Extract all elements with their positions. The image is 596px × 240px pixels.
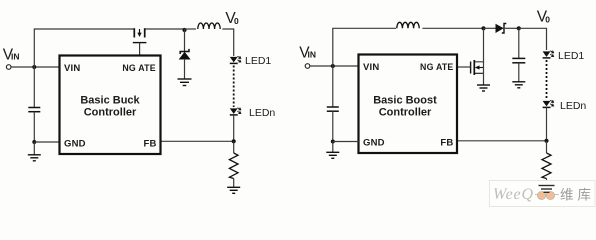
svg-text:GND: GND — [363, 138, 385, 149]
junction V0 node (boost) — [517, 26, 521, 30]
inductor L1 (buck) — [185, 23, 221, 29]
wire L1 to V0 node then down to LED string — [222, 29, 233, 56]
svg-text:Basic Buck: Basic Buck — [80, 95, 140, 107]
transistor Q1 PMOS switch (buck) — [133, 28, 147, 55]
svg-text:维库: 维库 — [560, 188, 595, 203]
svg-text:0: 0 — [234, 16, 239, 26]
transistor Q2 NMOS switch (boost) — [471, 60, 484, 85]
inductor L2 (boost) — [397, 22, 419, 28]
capacitor C3 output (boost) — [512, 28, 525, 81]
input terminal VIN (boost) — [305, 64, 310, 69]
wire FB pin to FB node — [161, 140, 234, 142]
junction VIN / C1 — [32, 65, 36, 69]
svg-text:Controller: Controller — [84, 107, 137, 119]
capacitor C1 input (buck) — [28, 67, 40, 142]
svg-text:LED1: LED1 — [245, 55, 271, 67]
junction VIN / C2 — [331, 64, 335, 68]
wire L2 to switch node — [422, 27, 483, 29]
resistor R2 current sense (boost) — [542, 141, 551, 185]
wire GND pin (boost) — [333, 141, 359, 143]
ground (Q2 source) — [477, 85, 490, 91]
svg-text:NG ATE: NG ATE — [420, 62, 453, 72]
watermark box — [490, 181, 596, 207]
node V0 label (buck) — [225, 10, 239, 27]
svg-text:GND: GND — [64, 139, 86, 150]
ground (D1) — [178, 79, 192, 86]
wire C1 junction to ground — [33, 142, 35, 155]
IC U1 Basic Buck Controller — [60, 56, 161, 155]
LED LED1 (buck) — [230, 56, 241, 63]
junction C2 / GND pin — [331, 140, 335, 144]
wire VIN rail up and across to Q1 source — [34, 29, 133, 67]
ground (R2) — [539, 186, 555, 193]
svg-text:VIN: VIN — [363, 62, 379, 73]
wire D1 anode to ground — [184, 59, 186, 79]
wire SW node down to D1 cathode — [184, 30, 186, 52]
wire VIN terminal to controller VIN pin (boost) — [310, 65, 359, 67]
svg-text:Controller: Controller — [379, 107, 432, 119]
resistor R1 current sense (buck) — [229, 141, 238, 187]
capacitor C2 input (boost) — [327, 66, 339, 142]
svg-text:NG ATE: NG ATE — [122, 63, 155, 73]
node VIN label (buck) — [3, 47, 20, 64]
wire VIN rail up and across to L2 — [333, 28, 396, 66]
node VIN label (boost) — [299, 45, 316, 62]
svg-text:IN: IN — [308, 50, 317, 60]
wire VIN terminal to controller VIN pin — [11, 66, 60, 68]
wire Q1 drain to SW node — [146, 28, 185, 30]
ground (C3) — [512, 82, 525, 88]
diode D2 schottky rectifier (boost) — [484, 24, 519, 34]
ground (R1) — [227, 187, 240, 193]
svg-text:VIN: VIN — [64, 63, 80, 74]
wire V0 node right and down to LED string — [519, 28, 547, 50]
wire LEDn to FB node — [233, 115, 235, 141]
svg-text:LEDn: LEDn — [249, 107, 275, 119]
wire SW node down to Q2 drain — [475, 28, 484, 62]
LED LED1 (boost) — [543, 51, 554, 58]
wire FB pin to FB node (boost) — [457, 140, 547, 142]
wire dotted LED string (buck) — [233, 66, 235, 108]
wire LEDn to FB node (boost) — [546, 107, 548, 140]
svg-text:FB: FB — [144, 138, 157, 149]
LED LEDn (boost) — [543, 100, 554, 107]
ground (C2) — [326, 152, 339, 158]
junction FB node (boost) — [544, 139, 548, 143]
diode D1 schottky freewheeling (buck) — [179, 49, 190, 59]
svg-text:0: 0 — [545, 15, 550, 25]
LED LEDn (buck) — [230, 108, 241, 115]
ground (C1) — [28, 155, 41, 161]
svg-text:LED1: LED1 — [558, 50, 584, 62]
junction C1 / GND pin — [32, 140, 36, 144]
wire NGATE pin to Q2 gate — [457, 66, 471, 68]
node V0 label (boost) — [537, 9, 550, 26]
svg-text:FB: FB — [440, 137, 453, 148]
junction FB node (buck) — [232, 139, 236, 143]
wire GND pin (buck) — [34, 141, 59, 143]
input terminal VIN (buck) — [6, 65, 11, 70]
svg-text:IN: IN — [11, 52, 20, 62]
junction SW node (buck) — [182, 28, 186, 32]
wire C2 junction to ground — [332, 142, 334, 153]
junction SW node (boost) — [481, 26, 485, 30]
svg-text:Basic Boost: Basic Boost — [373, 95, 437, 107]
svg-text:LEDn: LEDn — [560, 100, 586, 112]
IC U2 Basic Boost Controller — [359, 55, 458, 154]
wire dotted LED string (boost) — [546, 60, 548, 100]
svg-text:WeeQ: WeeQ — [493, 186, 534, 203]
